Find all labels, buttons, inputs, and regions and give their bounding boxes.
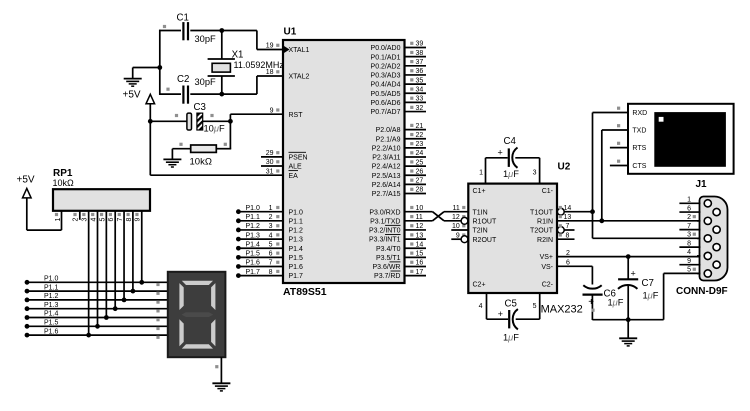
wire J1 pin9 stub [679, 264, 700, 266]
node RP1 pin3 junction [86, 333, 91, 338]
node RP1 pin4 junction [95, 324, 100, 329]
svg-text:4: 4 [479, 303, 483, 310]
svg-text:P1.6: P1.6 [289, 264, 304, 271]
capacitor C4 plate [508, 148, 510, 167]
node RP1 pin9 junction [139, 280, 144, 285]
capacitor C5 plate [508, 310, 510, 328]
svg-text:39: 39 [416, 41, 424, 48]
display pin markers [156, 283, 159, 339]
svg-text:P2.4/A12: P2.4/A12 [372, 164, 401, 171]
svg-text:P1.0: P1.0 [44, 276, 59, 283]
wire ground stub top-left [132, 68, 134, 79]
svg-text:RXD: RXD [632, 110, 647, 117]
svg-text:P2.6/A14: P2.6/A14 [372, 182, 401, 189]
wire RP1 pin2 stub [79, 211, 81, 220]
wire +5V vertical to EA [149, 104, 151, 175]
svg-text:17: 17 [416, 269, 424, 276]
svg-text:28: 28 [416, 187, 424, 194]
svg-text:P2.1/A9: P2.1/A9 [376, 136, 401, 143]
svg-text:C1+: C1+ [473, 188, 486, 195]
svg-text:P2.3/A11: P2.3/A11 [372, 155, 400, 162]
wire TXD vertical [601, 130, 603, 221]
node bus P1.0 terminal [25, 280, 30, 285]
svg-text:P1.5: P1.5 [44, 320, 59, 327]
svg-text:VS+: VS+ [540, 254, 553, 261]
wire C7 to rail [627, 285, 629, 320]
svg-text:10μF: 10μF [204, 124, 225, 134]
wire VS- right [557, 265, 592, 267]
node bus P1.1 terminal [25, 289, 30, 294]
wire C5 pin5 drop [539, 293, 541, 319]
svg-text:6: 6 [108, 217, 115, 221]
wires U1 P1.0-P1.7 [238, 212, 283, 276]
svg-text:5: 5 [99, 217, 106, 221]
svg-text:4: 4 [687, 249, 691, 256]
svg-text:MAX232: MAX232 [541, 303, 583, 315]
svg-text:7: 7 [687, 223, 691, 230]
svg-text:12: 12 [416, 223, 424, 230]
svg-text:ALE: ALE [289, 164, 303, 171]
wire bus P1.4 [27, 317, 168, 319]
svg-text:15: 15 [416, 251, 424, 258]
svg-text:C4: C4 [504, 136, 517, 147]
svg-text:P1.2: P1.2 [44, 293, 59, 300]
mcu U1 AT89S51 body [283, 40, 405, 283]
svg-text:R1IN: R1IN [537, 218, 553, 225]
MAX232 right pin numbers [559, 205, 572, 267]
virtual terminal pin names [632, 110, 647, 170]
wire RP1 pin1 [61, 211, 63, 230]
wire VS- down to C6 [591, 266, 593, 284]
svg-text:34: 34 [416, 86, 424, 93]
wire C5 left [487, 318, 509, 320]
wire VS+ to J1 pin4 [557, 256, 700, 258]
capacitor C5 curved plate [513, 309, 518, 329]
wire crystal bottom drop [221, 76, 223, 94]
ground reset resistor [163, 159, 181, 167]
svg-text:18: 18 [266, 69, 274, 76]
wire to ground top-left [133, 67, 160, 69]
svg-text:22: 22 [416, 132, 424, 139]
svg-text:P1.7: P1.7 [246, 269, 261, 276]
wire xtal ground rail [159, 30, 161, 95]
power +5V bottom arrow [23, 188, 32, 198]
svg-text:30pF: 30pF [195, 77, 217, 87]
svg-text:24: 24 [416, 150, 424, 157]
svg-text:30pF: 30pF [195, 34, 217, 44]
svg-text:12: 12 [452, 214, 460, 221]
U1 right pin numbers and stub wires [405, 41, 427, 276]
ground MAX232 rail [619, 338, 637, 346]
svg-text:AT89S51: AT89S51 [283, 286, 327, 298]
svg-text:CTS: CTS [632, 163, 646, 170]
svg-text:P3.2/INT0: P3.2/INT0 [369, 228, 401, 235]
svg-text:32: 32 [416, 105, 424, 112]
svg-text:1: 1 [687, 197, 691, 204]
svg-text:P1.1: P1.1 [289, 218, 304, 225]
wire to T1IN [444, 211, 468, 213]
wire XTAL1 vertical [256, 31, 258, 50]
capacitor C1 [183, 22, 188, 40]
svg-text:TXD: TXD [632, 128, 646, 135]
wire bus P1.3 [27, 308, 168, 310]
svg-text:6: 6 [687, 205, 691, 212]
wire C4 pin3 riser [539, 158, 541, 184]
MAX232 left pin numbers [452, 205, 465, 240]
wire RST to pin 9 [230, 113, 283, 115]
svg-text:11.0592MHz: 11.0592MHz [234, 60, 285, 70]
wire J1 pin5 entry [697, 272, 701, 274]
svg-text:C1-: C1- [542, 188, 554, 195]
marker C3 right [210, 114, 213, 117]
svg-text:P1.4: P1.4 [289, 246, 304, 253]
wire resistor ground stub [171, 149, 173, 160]
svg-text:3: 3 [533, 170, 537, 177]
wire RP1 pin9 vertical [141, 211, 143, 282]
svg-text:U2: U2 [558, 162, 571, 173]
MAX232 pin names [473, 188, 554, 289]
wire C5 pin4 drop [486, 293, 488, 319]
capacitor C4 curved plate [512, 148, 517, 168]
svg-text:C5: C5 [505, 299, 517, 310]
wire crossover diag 2 [433, 212, 445, 221]
wire C2 right [190, 93, 257, 95]
svg-text:5: 5 [533, 303, 537, 310]
node junction C2-XTAL2 [219, 92, 224, 97]
svg-text:C2+: C2+ [473, 282, 486, 289]
wire ground rail horizontal [592, 319, 663, 321]
wire C1 right [190, 30, 257, 32]
MAX232 R2OUT stub [451, 238, 461, 240]
svg-text:PSEN: PSEN [289, 155, 308, 162]
wire C4 left [486, 157, 508, 159]
node junction C1-XTAL1 [219, 28, 224, 33]
svg-text:P2.2/A10: P2.2/A10 [372, 145, 401, 152]
svg-text:EA: EA [289, 173, 299, 180]
svg-text:P1.0: P1.0 [289, 209, 304, 216]
svg-text:R1OUT: R1OUT [473, 218, 497, 225]
svg-text:8: 8 [687, 240, 691, 247]
svg-text:C3: C3 [194, 102, 206, 113]
capacitor C3 positive plate [187, 113, 192, 130]
svg-text:35: 35 [416, 77, 424, 84]
crystal X1 body [212, 63, 230, 72]
RP1 pin1 marker [55, 213, 58, 216]
crystal X1 bottom plate [208, 75, 235, 77]
U1 right pin names [369, 45, 401, 280]
svg-text:P3.3/INT1: P3.3/INT1 [369, 237, 401, 244]
node junction rail-C7 [626, 317, 631, 322]
wire C4 right [515, 157, 539, 159]
svg-text:P1.2: P1.2 [246, 223, 261, 230]
connector J1 shell [700, 197, 728, 281]
svg-text:5: 5 [687, 267, 691, 274]
virtual terminal screen [654, 112, 726, 167]
svg-text:P3.4/T0: P3.4/T0 [376, 246, 401, 253]
svg-text:11: 11 [453, 205, 460, 212]
svg-text:8: 8 [566, 232, 570, 239]
svg-text:P1.2: P1.2 [289, 228, 304, 235]
virtual terminal body [628, 104, 734, 174]
wire XTAL1 into pin 19 [257, 49, 283, 51]
svg-text:7: 7 [566, 223, 570, 230]
svg-text:16: 16 [416, 260, 424, 267]
node junction rail-ground [157, 65, 162, 70]
svg-text:9: 9 [135, 217, 142, 221]
MAX232 T2IN stub [451, 229, 468, 231]
svg-text:P1.7: P1.7 [289, 273, 304, 280]
node bus P1.4 terminal [25, 315, 30, 320]
svg-text:14: 14 [416, 241, 424, 248]
svg-text:37: 37 [416, 59, 424, 66]
wire C3 right [203, 120, 231, 122]
virtual terminal cursor [659, 117, 664, 122]
svg-text:1: 1 [479, 170, 483, 177]
svg-text:RST: RST [289, 112, 304, 119]
resistor pack RP1 body [53, 189, 150, 211]
node bus P1.5 terminal [25, 324, 30, 329]
svg-text:2: 2 [73, 217, 80, 221]
svg-text:27: 27 [416, 178, 424, 185]
svg-text:U1: U1 [284, 27, 297, 38]
MAX232 R1OUT bubble [461, 217, 468, 224]
svg-text:1μF: 1μF [608, 298, 624, 308]
svg-text:+5V: +5V [123, 90, 141, 101]
svg-text:T2OUT: T2OUT [530, 228, 554, 235]
svg-text:P1.5: P1.5 [246, 251, 261, 258]
marker display ground pin [215, 365, 218, 368]
wire J1 pin5 vertical [663, 273, 665, 319]
display segment b [211, 283, 215, 310]
svg-text:23: 23 [416, 141, 424, 148]
svg-text:P3.1/TXD: P3.1/TXD [370, 218, 400, 225]
svg-text:13: 13 [564, 214, 572, 221]
wire P3.0 from pin 10 [405, 211, 433, 213]
svg-text:CONN-D9F: CONN-D9F [676, 286, 728, 297]
svg-text:P1.3: P1.3 [44, 302, 59, 309]
svg-text:P0.2/AD2: P0.2/AD2 [371, 63, 401, 70]
svg-text:P1.4: P1.4 [246, 241, 261, 248]
svg-text:C7: C7 [642, 278, 654, 289]
capacitor C2 [183, 86, 188, 104]
svg-text:2: 2 [566, 250, 570, 257]
wire J1 pin8 stub [679, 246, 700, 248]
svg-text:P0.0/AD0: P0.0/AD0 [371, 45, 401, 52]
U1 left pin numbers [266, 43, 280, 276]
wire T1OUT [564, 211, 592, 213]
wire bus P1.0 [27, 281, 168, 283]
wire RTS stub [610, 147, 628, 149]
svg-text:P3.6/WR: P3.6/WR [372, 264, 400, 271]
node bus P1.6 terminal [25, 333, 30, 338]
svg-text:P1.5: P1.5 [289, 255, 304, 262]
marker C1 [163, 25, 166, 28]
display segment e [179, 319, 183, 346]
svg-text:P3.0/RXD: P3.0/RXD [369, 209, 400, 216]
svg-text:P1.1: P1.1 [246, 214, 261, 221]
node junction +5V-C3 [148, 119, 153, 124]
wire EA to pin 31 [150, 174, 283, 176]
svg-text:P2.0/A8: P2.0/A8 [376, 127, 401, 134]
node bus P1.2 terminal [25, 298, 30, 303]
display segment g (off) [182, 312, 214, 317]
RP1 pin1 number [55, 217, 62, 221]
wire C5 right [516, 318, 540, 320]
wire RP1 pin8 vertical [132, 211, 134, 291]
ground display [212, 383, 230, 391]
svg-text:+: + [588, 297, 594, 308]
svg-text:+5V: +5V [17, 175, 35, 186]
svg-text:+: + [498, 148, 503, 158]
svg-text:P1.6: P1.6 [44, 328, 59, 335]
wire crystal top drop [221, 31, 223, 60]
marker C2 [166, 88, 169, 91]
svg-text:P0.1/AD1: P0.1/AD1 [371, 54, 401, 61]
svg-text:3: 3 [82, 217, 89, 221]
wire XTAL2 into pin 18 [257, 75, 283, 77]
ground top-left [124, 79, 142, 87]
wire +5V down [26, 198, 28, 230]
driver U2 MAX232 body [468, 184, 557, 293]
MAX232 R2OUT bubble [461, 236, 468, 243]
svg-text:1μF: 1μF [503, 169, 519, 179]
svg-text:P1.4: P1.4 [44, 311, 59, 318]
J1 pin numbers [687, 197, 696, 274]
svg-text:P0.3/AD3: P0.3/AD3 [371, 73, 401, 80]
node RP1 pin6 junction [113, 306, 118, 311]
svg-text:9: 9 [687, 258, 691, 265]
marker resistor left [179, 143, 182, 146]
wire bus P1.6 [27, 334, 168, 336]
crystal X1 top plate [208, 58, 235, 60]
wire J1 pin5 horizontal [664, 272, 700, 274]
svg-text:+: + [498, 309, 503, 319]
wire J1 pin2 entry [697, 220, 701, 222]
wire RP1 pin7 vertical [123, 211, 125, 300]
wire J1 pin7 stub [679, 229, 700, 231]
marker C6 [591, 309, 594, 312]
wire J1 pin3 entry [697, 237, 701, 239]
svg-text:XTAL2: XTAL2 [289, 74, 310, 81]
wire bus P1.5 [27, 325, 168, 327]
node junction R1IN-TXD [599, 218, 604, 223]
node RP1 pin5 junction [104, 315, 109, 320]
svg-text:1μF: 1μF [503, 333, 519, 343]
svg-text:25: 25 [416, 159, 424, 166]
svg-text:T1IN: T1IN [473, 209, 488, 216]
node RP1 pin8 junction [131, 289, 136, 294]
wire J1 pin6 stub [679, 211, 700, 213]
display segment d [182, 344, 213, 348]
svg-text:T2IN: T2IN [473, 228, 488, 235]
marker resistor right [224, 143, 227, 146]
svg-text:P2.7/A15: P2.7/A15 [372, 191, 401, 198]
svg-text:14: 14 [564, 205, 572, 212]
svg-text:36: 36 [416, 68, 424, 75]
MAX232 R2IN stub [557, 238, 575, 240]
wire P3.1 from pin 11 [405, 220, 433, 222]
svg-text:P2.5/A13: P2.5/A13 [372, 173, 401, 180]
wire C4 pin1 riser [485, 158, 487, 184]
wire J1 pin1 stub [679, 202, 700, 204]
wire R1IN to J1 pin2 [557, 220, 700, 222]
svg-text:P1.0: P1.0 [246, 205, 261, 212]
capacitor C7 curved plate [618, 285, 637, 289]
U1 left pin names [289, 47, 310, 280]
svg-text:C2: C2 [177, 74, 189, 85]
connector J1 holes [704, 200, 720, 277]
RP1 pin2-9 numbers [73, 213, 142, 222]
svg-text:P3.5/T1: P3.5/T1 [376, 255, 401, 262]
wire display ground [220, 357, 222, 383]
resistor 10k body [191, 145, 217, 152]
wire C7 drop [627, 257, 629, 280]
svg-text:P1.3: P1.3 [246, 232, 261, 239]
svg-text:2: 2 [687, 214, 691, 221]
svg-text:P0.4/AD4: P0.4/AD4 [371, 82, 401, 89]
wire C3 left [150, 120, 186, 122]
wire TXD [602, 129, 628, 131]
labels U1 P1 nets [246, 205, 261, 276]
wire RP1 pin3 vertical [88, 211, 90, 335]
svg-text:RTS: RTS [632, 145, 646, 152]
svg-text:T1OUT: T1OUT [530, 209, 554, 216]
svg-text:J1: J1 [696, 179, 708, 190]
wire PSEN stub [261, 156, 283, 158]
svg-text:26: 26 [416, 168, 424, 175]
svg-text:P0.6/AD6: P0.6/AD6 [371, 100, 401, 107]
wire to R1OUT bubble [444, 220, 461, 222]
wire ground rail stub [627, 320, 629, 339]
MAX232 T2OUT stub [564, 229, 574, 231]
nodes U1 P1 wire terminals [236, 209, 241, 278]
wire resistor left [172, 148, 190, 150]
wire C1 left [159, 30, 181, 32]
marker C3 left [175, 114, 178, 117]
svg-text:21: 21 [416, 123, 424, 130]
wire ALE stub [261, 165, 283, 167]
wire XTAL2 vertical [256, 76, 258, 94]
wire bus P1.1 [27, 290, 168, 292]
svg-text:38: 38 [416, 50, 424, 57]
svg-text:P1.1: P1.1 [44, 284, 59, 291]
power +5V top arrow [146, 94, 155, 104]
svg-text:1μF: 1μF [643, 291, 659, 301]
svg-text:10kΩ: 10kΩ [190, 157, 212, 168]
node bus P1.3 terminal [25, 306, 30, 311]
display segment c [211, 319, 215, 346]
wire RP1 pin5 vertical [105, 211, 107, 318]
svg-text:4: 4 [90, 217, 97, 221]
svg-text:+: + [631, 269, 636, 279]
svg-text:C2-: C2- [542, 282, 554, 289]
wire resistor right elbow [216, 148, 231, 150]
wire RP1 pin4 vertical [97, 211, 99, 326]
display segment f [179, 283, 183, 310]
svg-text:VS-: VS- [541, 264, 553, 271]
wire crossover diag 1 [433, 212, 445, 221]
svg-text:1: 1 [55, 217, 62, 221]
svg-text:33: 33 [416, 96, 424, 103]
capacitor C6 plate [583, 294, 603, 296]
wire +5V to RP1 pin1 horizontal [27, 229, 62, 231]
wire bus P1.2 [27, 299, 168, 301]
wire J1 pin4 entry [697, 255, 701, 257]
svg-text:10kΩ: 10kΩ [53, 178, 75, 188]
svg-text:13: 13 [416, 232, 424, 239]
wire C2 left [159, 93, 181, 95]
svg-text:C1: C1 [177, 13, 189, 24]
